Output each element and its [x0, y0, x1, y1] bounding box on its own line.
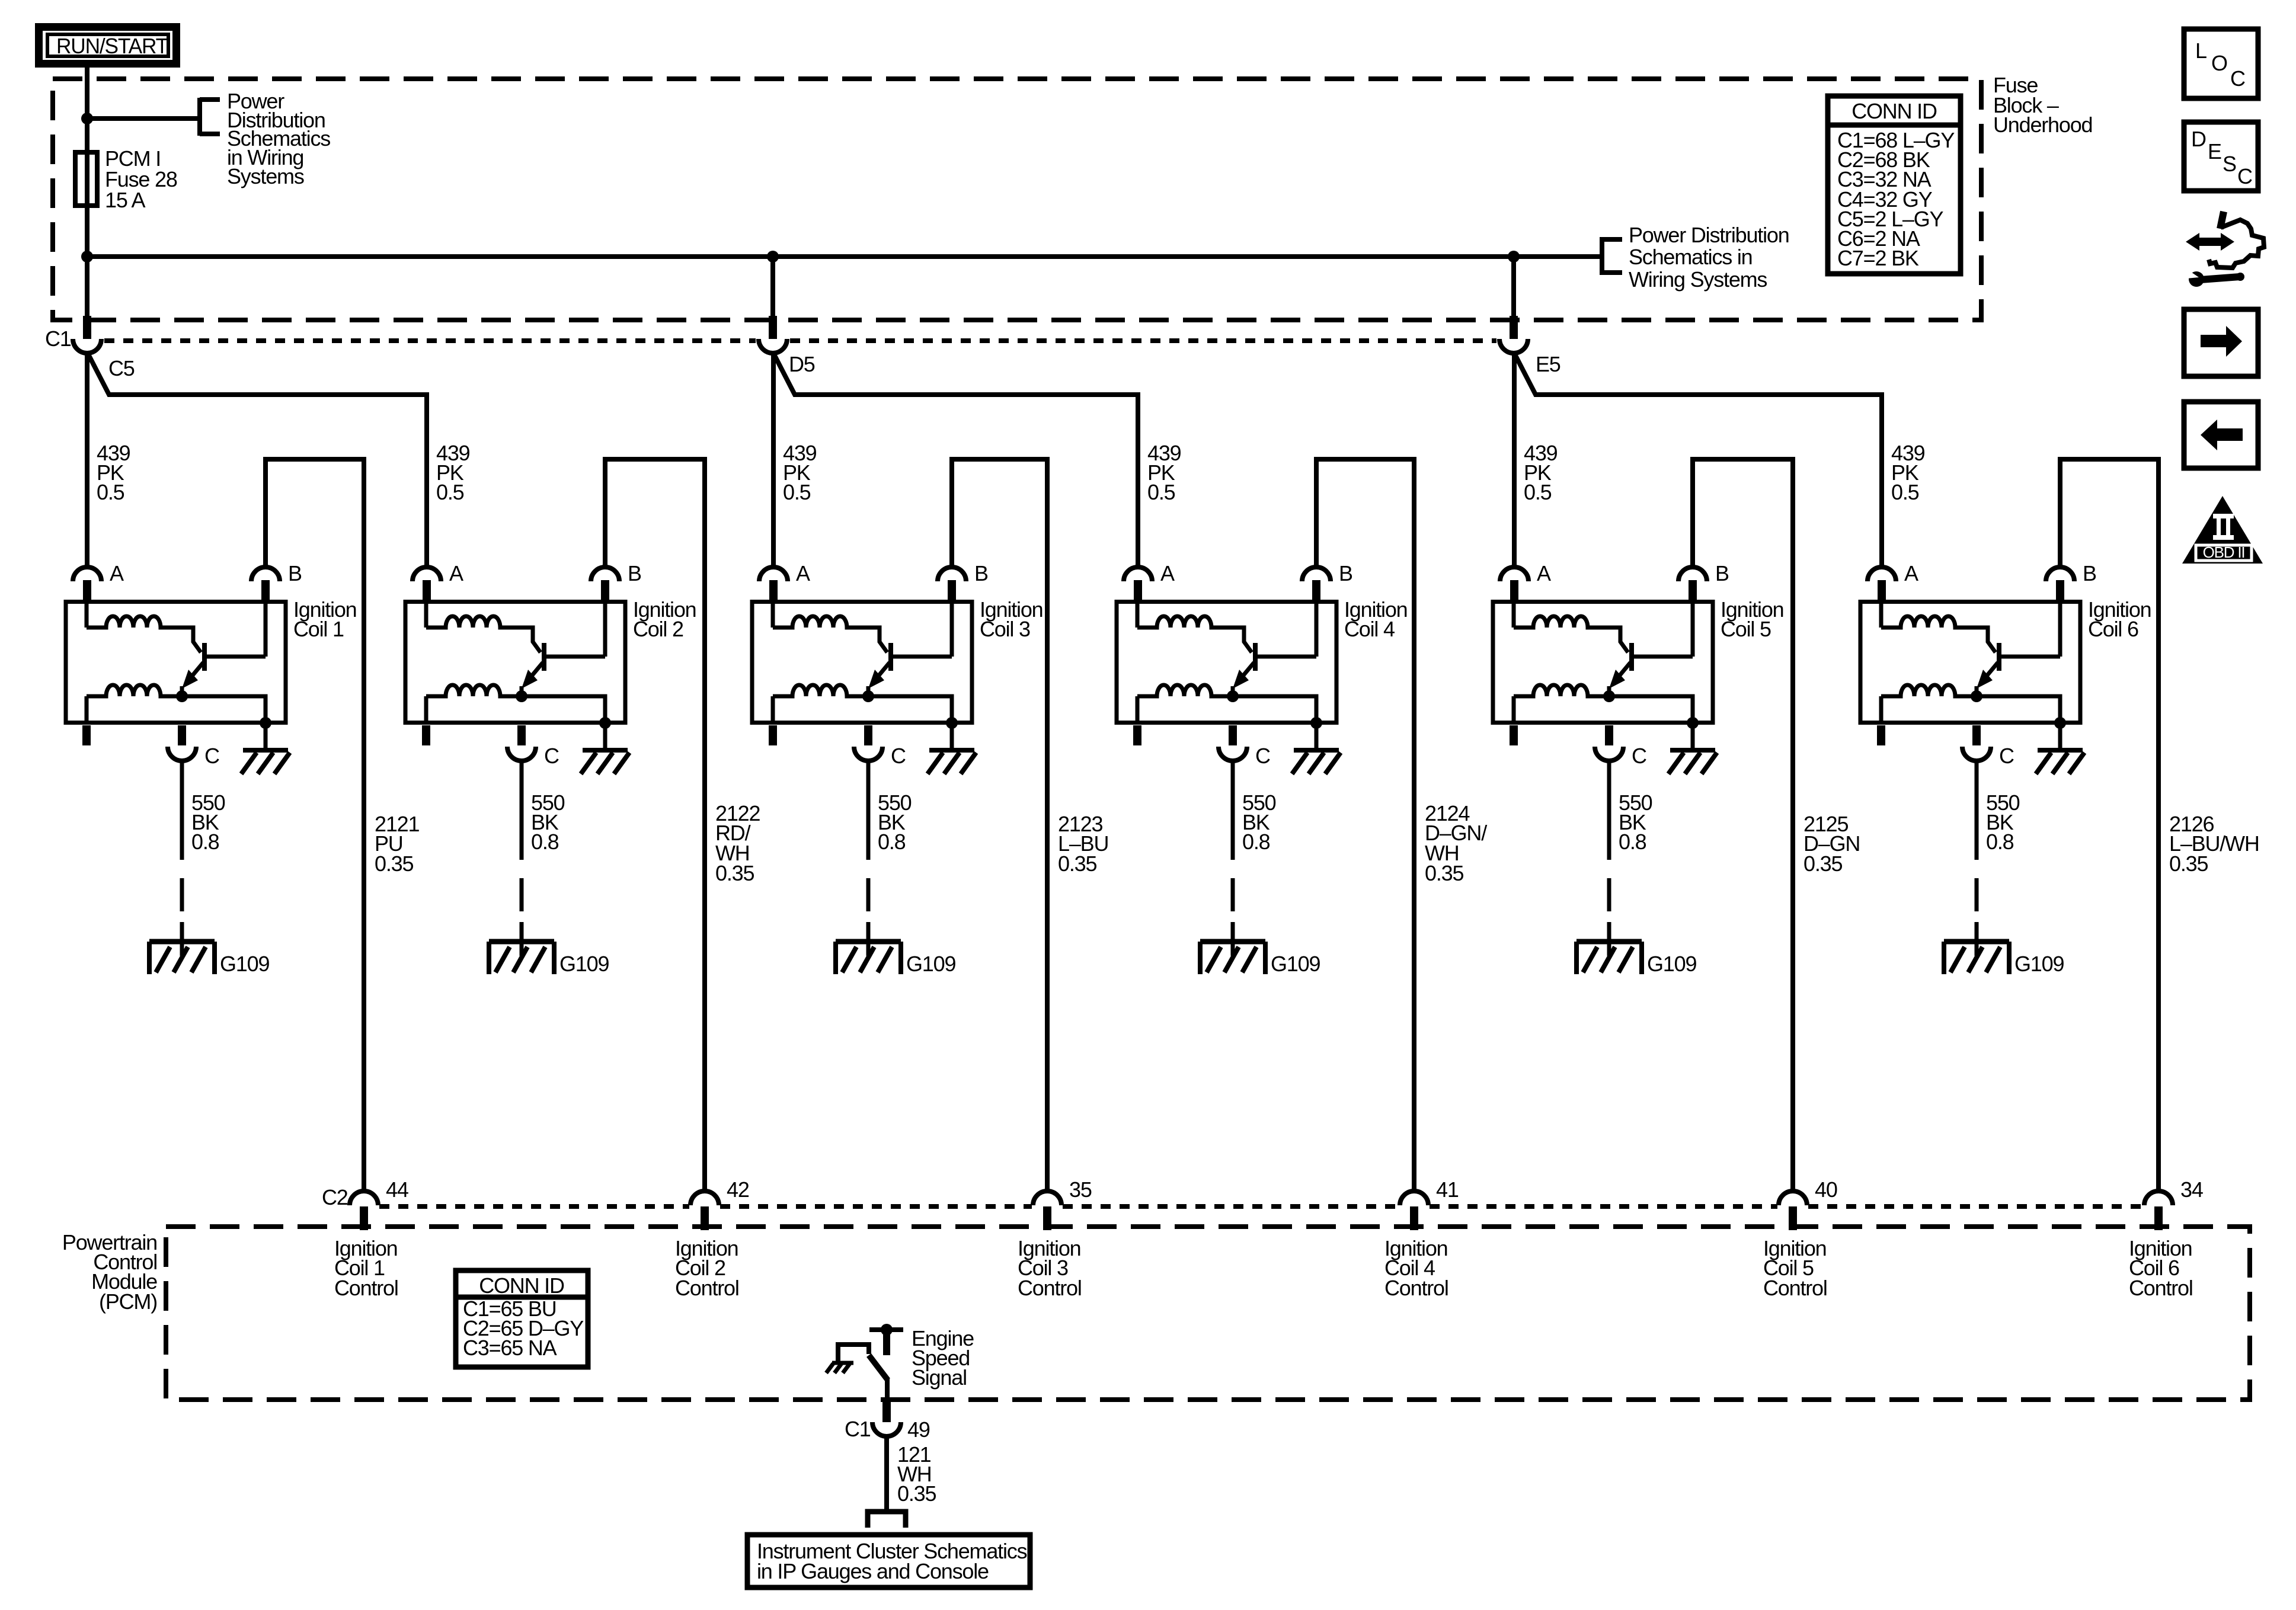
svg-text:0.35: 0.35: [715, 861, 754, 885]
svg-text:Control: Control: [1384, 1276, 1448, 1300]
wire emitter node to ground column (coil 5): [1609, 696, 1693, 724]
svg-text:O: O: [2211, 51, 2227, 75]
stub unused pin under coil 6: [1877, 725, 1885, 745]
label G109 (coil 1): [220, 952, 269, 976]
wire dashed continuation to G109 (coil 5): [1607, 878, 1611, 956]
wire pin B column to base (coil 5): [1691, 601, 1695, 657]
svg-text:C1: C1: [845, 1417, 871, 1441]
svg-text:C: C: [544, 744, 559, 768]
svg-text:C1: C1: [45, 327, 71, 351]
connector C5 fuse block output stub: [83, 316, 91, 339]
connector C5 terminal: [73, 339, 101, 353]
powertrain control module (PCM) dashed boundary: [166, 1227, 2250, 1400]
svg-text:C5: C5: [108, 356, 135, 380]
label wire 2124: [1425, 801, 1487, 885]
svg-text:C: C: [1255, 744, 1270, 768]
connector pin C ignition coil 2: [507, 725, 536, 761]
svg-text:15 A: 15 A: [105, 188, 145, 212]
label pin A (coil 6): [1904, 561, 1918, 585]
label wire 550 BK 0.8 (coil 4): [1242, 790, 1276, 854]
svg-text:34: 34: [2180, 1177, 2203, 1202]
svg-text:0.5: 0.5: [97, 480, 124, 504]
svg-text:C7=2 BK: C7=2 BK: [1837, 246, 1919, 270]
connector PCM pin 35: [1033, 1191, 1061, 1230]
transistor Q2 (driver inside coil 2): [522, 643, 605, 696]
svg-text:0.8: 0.8: [191, 830, 219, 854]
label wire 121 WH 0.35: [897, 1442, 936, 1506]
wire D5 drop: [770, 257, 775, 317]
wire emitter node to ground column (coil 1): [182, 696, 266, 724]
label Ignition Coil 4 Control: [1384, 1236, 1448, 1300]
label fuse block - underhood: [1993, 73, 2092, 137]
table CONN ID PCM: [456, 1270, 588, 1367]
connector pin B ignition coil 4: [1302, 567, 1331, 601]
svg-text:0.35: 0.35: [2169, 852, 2208, 876]
svg-text:0.35: 0.35: [1058, 852, 1096, 876]
label pin C (coil 4): [1255, 744, 1270, 768]
svg-text:Underhood: Underhood: [1993, 113, 2092, 137]
junction emitter node (coil 5): [1603, 690, 1615, 702]
wire to case ground (coil 2): [603, 724, 607, 749]
connector PCM pin 40: [1779, 1191, 1807, 1230]
wire to case ground (coil 5): [1691, 724, 1695, 749]
connector pin A ignition coil 4: [1124, 567, 1152, 601]
svg-text:Control: Control: [1018, 1276, 1082, 1300]
svg-text:B: B: [974, 561, 988, 585]
connector pin A ignition coil 5: [1500, 567, 1528, 601]
svg-text:Coil 4: Coil 4: [1344, 617, 1395, 641]
junction on RUN/START feed: [81, 113, 93, 124]
wire emitter node to ground column (coil 6): [1977, 696, 2060, 724]
label pin B (coil 2): [628, 561, 641, 585]
connector pin C ignition coil 3: [854, 725, 882, 761]
svg-text:S: S: [2223, 152, 2236, 176]
ground case (coil 3) chassis symbol: [928, 750, 976, 774]
wire pin B column to base (coil 6): [2058, 601, 2062, 657]
label pin A (coil 5): [1537, 561, 1551, 585]
label pin A (coil 2): [449, 561, 463, 585]
ground G109 (coil 1): [149, 942, 215, 974]
wire dashed continuation to G109 (coil 6): [1975, 878, 1979, 956]
svg-text:Control: Control: [1763, 1276, 1827, 1300]
junction emitter node (coil 2): [516, 690, 527, 702]
wire to case ground (coil 1): [264, 724, 268, 749]
junction emitter node (coil 1): [176, 690, 188, 702]
svg-text:A: A: [449, 561, 463, 585]
label wire 439 PK 0.5 (coil 6): [1891, 441, 1925, 504]
svg-text:D: D: [2191, 127, 2206, 151]
connector pin A ignition coil 2: [412, 567, 441, 601]
label power distribution schematics in wiring systems (right): [1629, 223, 1789, 292]
bracket power distribution reference (right): [1602, 237, 1622, 275]
svg-text:0.5: 0.5: [1524, 480, 1552, 504]
ground case (coil 2) chassis symbol: [581, 750, 629, 774]
label pin B (coil 5): [1715, 561, 1729, 585]
wire 439 PK feed to ignition coil 1 pin A: [85, 352, 89, 567]
label wire 439 PK 0.5 (coil 4): [1147, 441, 1181, 504]
stub unused pin under coil 1: [82, 725, 91, 745]
wire dashed continuation to G109 (coil 2): [520, 878, 524, 956]
svg-text:D5: D5: [789, 352, 815, 376]
wire 2124 coil 4 control to PCM pin 41: [1316, 459, 1414, 1191]
wire engine speed signal to ground: [838, 1345, 869, 1363]
junction emitter node (coil 3): [862, 690, 874, 702]
wire emitter node to ground column (coil 4): [1233, 696, 1316, 724]
svg-text:(PCM): (PCM): [99, 1289, 157, 1314]
wire 2125 coil 5 control to PCM pin 40: [1693, 459, 1793, 1191]
label C1 (bottom): [845, 1417, 871, 1441]
label wire 2121: [375, 812, 419, 876]
label wire 439 PK 0.5 (coil 2): [436, 441, 470, 504]
ignition coil 4 box: [1117, 602, 1336, 723]
svg-text:0.5: 0.5: [1891, 480, 1919, 504]
svg-text:40: 40: [1815, 1177, 1837, 1202]
wire to case ground (coil 4): [1315, 724, 1319, 749]
svg-text:C2: C2: [322, 1185, 348, 1209]
label wire 2125: [1803, 812, 1860, 876]
svg-text:0.35: 0.35: [1803, 852, 1842, 876]
label wire 439 PK 0.5 (coil 1): [97, 441, 130, 504]
connector E5 fuse block output stub: [1510, 316, 1518, 339]
label Ignition Coil 4: [1344, 597, 1408, 641]
wire 439 PK branch from connector to ignition coil 6 pin A: [1515, 354, 1882, 567]
svg-text:C3=65 NA: C3=65 NA: [463, 1336, 557, 1360]
label Ignition Coil 3: [980, 597, 1043, 641]
svg-text:Coil 6: Coil 6: [2088, 617, 2138, 641]
svg-text:0.5: 0.5: [1147, 480, 1175, 504]
icon DESC box: [2184, 122, 2258, 191]
svg-text:CONN ID: CONN ID: [1851, 99, 1937, 123]
label wire 439 PK 0.5 (coil 3): [783, 441, 817, 504]
label wire 2126: [2169, 812, 2259, 876]
connector pin B ignition coil 5: [1678, 567, 1707, 601]
ignition coil 6 box: [1860, 602, 2080, 723]
svg-text:C: C: [1632, 744, 1646, 768]
svg-text:0.8: 0.8: [531, 830, 559, 854]
label wire 439 PK 0.5 (coil 5): [1524, 441, 1558, 504]
label Ignition Coil 3 Control: [1018, 1236, 1082, 1300]
ground case (coil 6) chassis symbol: [2036, 750, 2084, 774]
label wire 550 BK 0.8 (coil 5): [1619, 790, 1652, 854]
svg-text:35: 35: [1069, 1177, 1092, 1202]
svg-text:Systems: Systems: [227, 164, 304, 188]
transistor Q6 (driver inside coil 6): [1977, 643, 2060, 696]
label wire 550 BK 0.8 (coil 1): [191, 790, 225, 854]
connector PCM pin 34: [2144, 1191, 2173, 1230]
label power distribution schematics in wiring systems (left): [227, 89, 330, 188]
primary winding ignition coil 5: [1514, 601, 1628, 652]
wire 550 BK from pin C (coil 3): [866, 761, 871, 860]
svg-text:0.5: 0.5: [436, 480, 464, 504]
label wire 550 BK 0.8 (coil 3): [878, 790, 912, 854]
connector E5 terminal: [1499, 339, 1528, 353]
icon back arrow box: [2184, 402, 2258, 468]
svg-text:B: B: [1339, 561, 1352, 585]
label pin 41: [1436, 1177, 1459, 1202]
junction ground column at box edge (coil 2): [599, 717, 611, 729]
transistor Q4 (driver inside coil 4): [1233, 643, 1316, 696]
svg-text:G109: G109: [2014, 952, 2064, 976]
svg-text:C: C: [1999, 744, 2014, 768]
connector PCM pin 44: [350, 1191, 378, 1230]
junction bus at C5 drop: [81, 251, 93, 263]
label G109 (coil 4): [1271, 952, 1320, 976]
label pin B (coil 4): [1339, 561, 1352, 585]
svg-text:0.35: 0.35: [1425, 861, 1463, 885]
label pin A (coil 4): [1160, 561, 1175, 585]
label wire 2123: [1058, 812, 1108, 876]
label C2 (PCM connector): [322, 1185, 348, 1209]
svg-text:Coil 3: Coil 3: [980, 617, 1030, 641]
ground G109 (coil 6): [1944, 942, 2009, 974]
off-page connector to instrument cluster: [868, 1512, 906, 1528]
svg-text:Control: Control: [334, 1276, 398, 1300]
connector pin C ignition coil 4: [1219, 725, 1247, 761]
transistor Q3 (driver inside coil 3): [868, 643, 952, 696]
connector pin B ignition coil 3: [938, 567, 966, 601]
connector interface dotted line (fuse block C1): [104, 338, 1496, 343]
svg-text:Control: Control: [2129, 1276, 2193, 1300]
wire to case ground (coil 6): [2058, 724, 2062, 749]
junction bus at E5 drop: [1508, 251, 1520, 263]
svg-text:0.8: 0.8: [878, 830, 906, 854]
wire 439 PK feed to ignition coil 3 pin A: [771, 352, 776, 567]
label pin 44: [386, 1177, 408, 1202]
label Engine Speed Signal: [912, 1326, 974, 1390]
label G109 (coil 2): [559, 952, 609, 976]
connector PCM pin 42: [690, 1191, 719, 1230]
ground G109 (coil 4): [1200, 942, 1265, 974]
svg-text:C: C: [204, 744, 219, 768]
table CONN ID fuse block underhood: [1828, 96, 1961, 274]
svg-text:0.35: 0.35: [897, 1481, 936, 1506]
label G109 (coil 3): [906, 952, 955, 976]
wire 550 BK from pin C (coil 1): [180, 761, 184, 860]
wire 550 BK from pin C (coil 4): [1231, 761, 1235, 860]
wire 2121 coil 1 control to PCM pin 44: [266, 459, 364, 1191]
label pin 42: [727, 1177, 749, 1202]
connector pin C ignition coil 6: [1962, 725, 1991, 761]
svg-text:A: A: [1160, 561, 1175, 585]
svg-text:Control: Control: [675, 1276, 739, 1300]
svg-text:A: A: [796, 561, 810, 585]
svg-text:B: B: [2083, 561, 2096, 585]
svg-text:0.8: 0.8: [1242, 830, 1270, 854]
ignition coil 3 box: [752, 602, 972, 723]
wire 550 BK from pin C (coil 5): [1607, 761, 1611, 860]
wire 2122 coil 2 control to PCM pin 42: [605, 459, 705, 1191]
label E5: [1536, 352, 1560, 376]
wire to case ground (coil 3): [950, 724, 954, 749]
node instrument cluster schematics reference box: [747, 1535, 1030, 1587]
wire 439 PK feed to ignition coil 5 pin A: [1512, 352, 1517, 567]
fuse PCM I Fuse 28 15 A: [75, 152, 97, 206]
svg-text:A: A: [1904, 561, 1918, 585]
transistor Q1 (driver inside coil 1): [182, 643, 266, 696]
wire 550 BK from pin C (coil 6): [1975, 761, 1979, 860]
stub unused pin under coil 4: [1133, 725, 1141, 745]
fuse block - underhood dashed boundary: [53, 79, 1981, 320]
label Ignition Coil 1: [293, 597, 357, 641]
ignition coil 1 box: [66, 602, 286, 723]
svg-text:0.8: 0.8: [1986, 830, 2014, 854]
svg-text:A: A: [110, 561, 124, 585]
label Ignition Coil 1 Control: [334, 1236, 398, 1300]
stub unused pin under coil 3: [769, 725, 777, 745]
connector pin A ignition coil 3: [759, 567, 788, 601]
label Ignition Coil 5: [1721, 597, 1784, 641]
label wire 550 BK 0.8 (coil 2): [531, 790, 565, 854]
wire 550 BK from pin C (coil 2): [520, 761, 524, 860]
wire 121 WH 0.35: [884, 1436, 889, 1510]
label Ignition Coil 2 Control: [675, 1236, 739, 1300]
svg-text:E5: E5: [1536, 352, 1560, 376]
junction emitter node (coil 6): [1971, 690, 1982, 702]
label pin C (coil 1): [204, 744, 219, 768]
ground (engine speed signal): [826, 1363, 853, 1373]
wire dashed continuation to G109 (coil 4): [1231, 878, 1235, 956]
junction emitter node (coil 4): [1227, 690, 1239, 702]
connector interface dotted line (PCM C2): [379, 1204, 2143, 1209]
label Ignition Coil 5 Control: [1763, 1236, 1827, 1300]
svg-text:42: 42: [727, 1177, 749, 1202]
label pin A (coil 1): [110, 561, 124, 585]
icon OBD II triangle: [2182, 496, 2263, 564]
svg-text:G109: G109: [1647, 952, 1696, 976]
label pin C (coil 2): [544, 744, 559, 768]
wire from RUN/START down through fuse: [85, 63, 89, 317]
wire 439 PK branch from connector to ignition coil 2 pin A: [88, 354, 427, 567]
icon forward arrow box: [2184, 309, 2258, 376]
connector pin A ignition coil 6: [1868, 567, 1896, 601]
svg-text:0.5: 0.5: [783, 480, 811, 504]
svg-text:49: 49: [907, 1417, 930, 1442]
wire power bus inside fuse block: [87, 254, 1600, 259]
ground case (coil 4) chassis symbol: [1292, 750, 1341, 774]
svg-text:Power Distribution: Power Distribution: [1629, 223, 1789, 247]
wire 2126 coil 6 control to PCM pin 34: [2060, 459, 2159, 1191]
switch blade engine speed signal: [869, 1355, 888, 1380]
svg-text:G109: G109: [1271, 952, 1320, 976]
svg-text:CONN ID: CONN ID: [479, 1273, 564, 1298]
wire E5 drop: [1511, 257, 1516, 317]
wire pin B column to base (coil 2): [603, 601, 607, 657]
primary winding ignition coil 6: [1881, 601, 1996, 652]
primary winding ignition coil 2: [426, 601, 541, 652]
svg-text:Wiring Systems: Wiring Systems: [1629, 267, 1767, 292]
wire pin B column to base (coil 3): [950, 601, 954, 657]
svg-text:44: 44: [386, 1177, 408, 1202]
svg-text:Coil 2: Coil 2: [633, 617, 683, 641]
secondary winding ignition coil 2: [426, 685, 522, 724]
ground case (coil 5) chassis symbol: [1668, 750, 1717, 774]
wire dashed continuation to G109 (coil 1): [180, 878, 184, 956]
svg-text:Coil 1: Coil 1: [293, 617, 344, 641]
label pin B (coil 1): [288, 561, 302, 585]
svg-text:0.8: 0.8: [1619, 830, 1646, 854]
svg-text:B: B: [628, 561, 641, 585]
svg-text:Schematics in: Schematics in: [1629, 245, 1753, 269]
label Ignition Coil 6 Control: [2129, 1236, 2193, 1300]
connector pin C ignition coil 1: [168, 725, 196, 761]
ground case (coil 1) chassis symbol: [241, 750, 290, 774]
label pin 34: [2180, 1177, 2203, 1202]
label wire 550 BK 0.8 (coil 6): [1986, 790, 2020, 854]
svg-text:B: B: [1715, 561, 1729, 585]
primary winding ignition coil 1: [87, 601, 201, 652]
svg-text:Signal: Signal: [912, 1365, 967, 1390]
wire 439 PK branch from connector to ignition coil 4 pin A: [774, 354, 1138, 567]
ignition coil 5 box: [1493, 602, 1713, 723]
label Powertrain Control Module (PCM): [62, 1230, 157, 1314]
connector pin A ignition coil 1: [73, 567, 101, 601]
secondary winding ignition coil 4: [1137, 685, 1233, 724]
label pin C (coil 6): [1999, 744, 2014, 768]
connector pin B ignition coil 6: [2046, 567, 2074, 601]
wire dashed continuation to G109 (coil 3): [866, 878, 871, 956]
svg-text:RUN/START: RUN/START: [56, 34, 168, 58]
svg-text:41: 41: [1436, 1177, 1459, 1202]
stub unused pin under coil 2: [422, 725, 430, 745]
svg-text:OBD II: OBD II: [2203, 543, 2245, 561]
svg-text:C: C: [891, 744, 906, 768]
secondary winding ignition coil 5: [1514, 685, 1609, 724]
label pin C (coil 5): [1632, 744, 1646, 768]
ground G109 (coil 5): [1576, 942, 1642, 974]
secondary winding ignition coil 6: [1881, 685, 1977, 724]
svg-text:L: L: [2195, 39, 2207, 63]
label pin B (coil 6): [2083, 561, 2096, 585]
junction ground column at box edge (coil 4): [1310, 717, 1322, 729]
label Ignition Coil 2: [633, 597, 696, 641]
label pin 35: [1069, 1177, 1092, 1202]
svg-text:B: B: [288, 561, 302, 585]
junction ground column at box edge (coil 3): [946, 717, 958, 729]
label pin C (coil 3): [891, 744, 906, 768]
secondary winding ignition coil 3: [773, 685, 868, 724]
connector PCM pin 41: [1400, 1191, 1428, 1230]
label pin B (coil 3): [974, 561, 988, 585]
svg-text:E: E: [2208, 139, 2221, 164]
label G109 (coil 6): [2014, 952, 2064, 976]
svg-text:C: C: [2237, 164, 2252, 188]
svg-text:G109: G109: [906, 952, 955, 976]
label pin 49: [907, 1417, 930, 1442]
label C5: [108, 356, 135, 380]
label PCM I Fuse 28 15 A: [105, 146, 177, 212]
label Ignition Coil 6: [2088, 597, 2151, 641]
primary winding ignition coil 4: [1137, 601, 1252, 652]
stub unused pin under coil 5: [1510, 725, 1518, 745]
bracket power distribution reference (top left): [200, 98, 220, 136]
connector C1 pin 49: [872, 1400, 901, 1436]
svg-text:Coil 5: Coil 5: [1721, 617, 1771, 641]
wire engine speed signal down to C1: [885, 1379, 890, 1401]
wire pin B column to base (coil 4): [1315, 601, 1319, 657]
svg-text:A: A: [1537, 561, 1551, 585]
ground G109 (coil 2): [489, 942, 554, 974]
ground G109 (coil 3): [836, 942, 901, 974]
ignition coil 2 box: [405, 602, 625, 723]
secondary winding ignition coil 1: [87, 685, 182, 724]
junction ground column at box edge (coil 6): [2054, 717, 2066, 729]
primary winding ignition coil 3: [773, 601, 887, 652]
connector D5 fuse block output stub: [769, 316, 777, 339]
junction ground column at box edge (coil 1): [260, 717, 271, 729]
transistor Q5 (driver inside coil 5): [1609, 643, 1693, 696]
label pin 40: [1815, 1177, 1837, 1202]
node RUN/START voltage source box: [39, 27, 177, 64]
